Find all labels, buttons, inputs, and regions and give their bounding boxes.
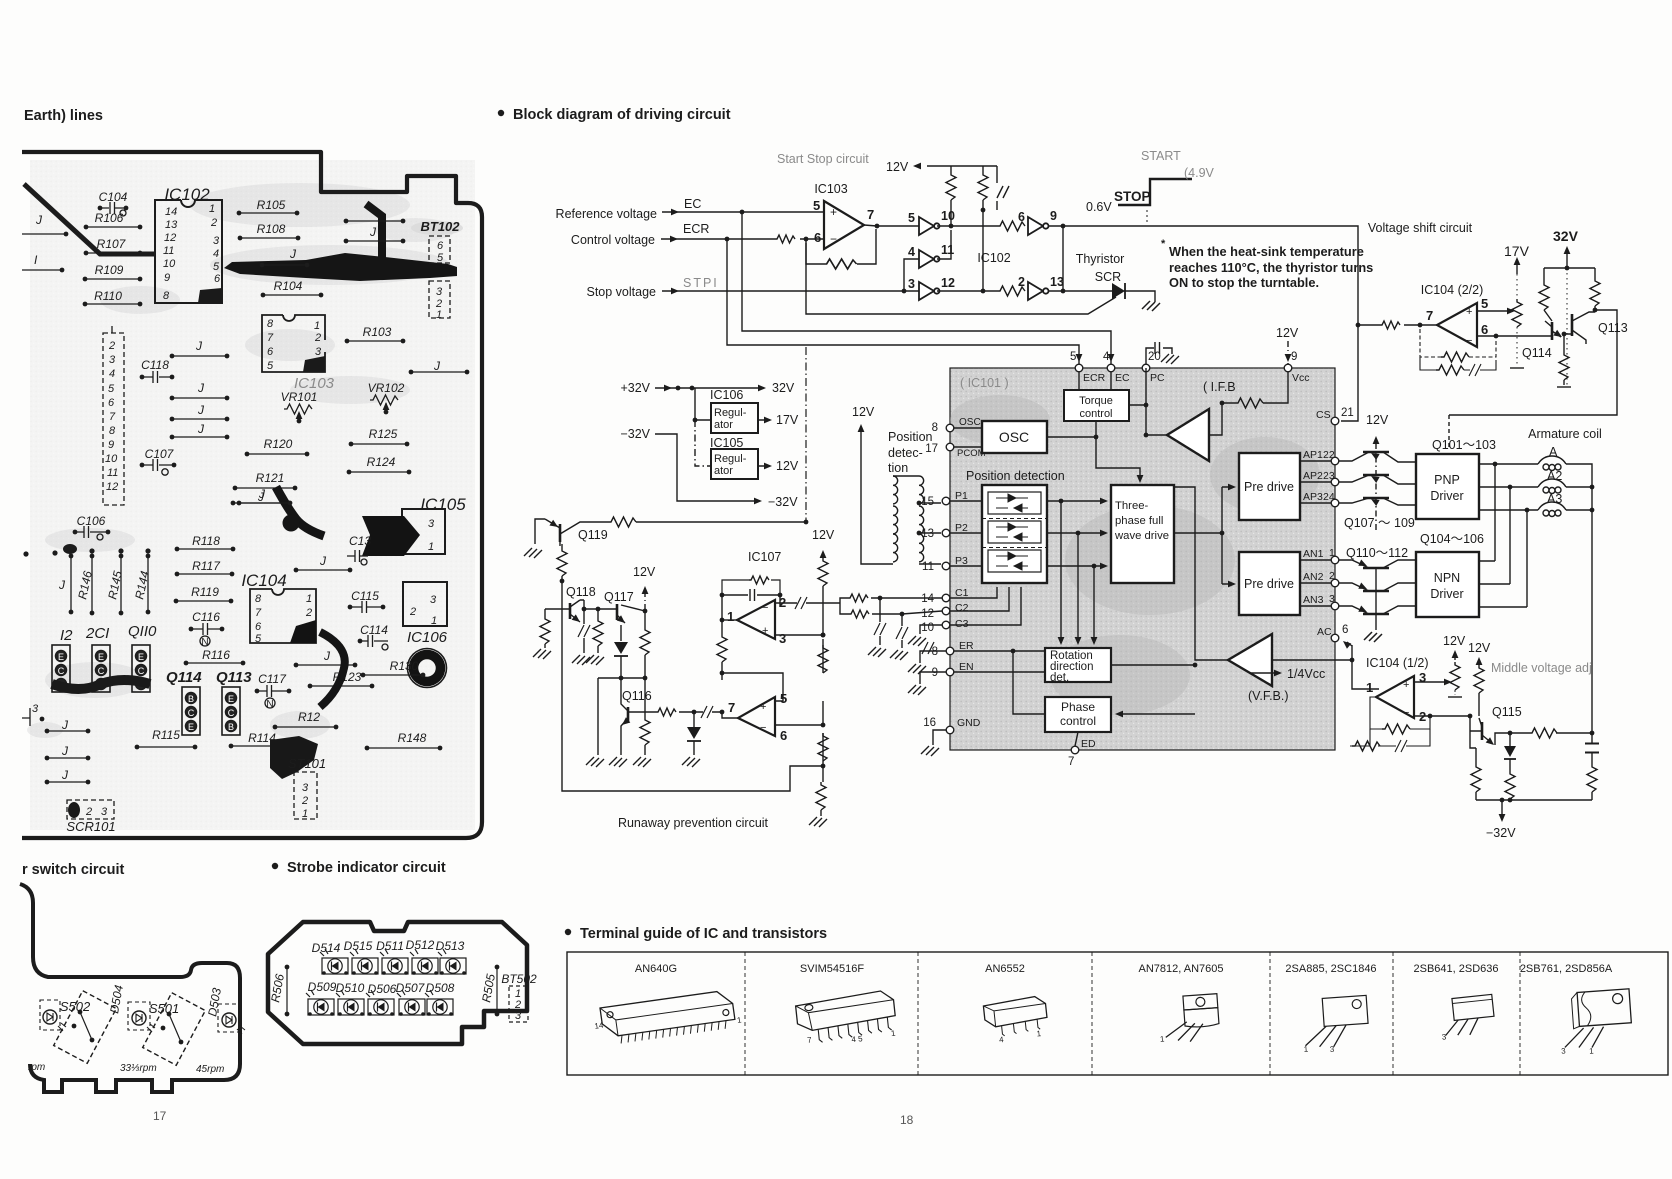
svg-text:J: J — [258, 487, 266, 501]
IFB buffer amp — [1167, 409, 1209, 461]
svg-text:3: 3 — [1329, 593, 1335, 605]
LED D510 — [336, 981, 365, 1016]
svg-text:C118: C118 — [141, 358, 169, 372]
board outline — [22, 152, 482, 838]
svg-text:R121: R121 — [256, 471, 285, 485]
svg-text:3: 3 — [109, 354, 116, 366]
svg-text:18: 18 — [900, 1113, 914, 1127]
capacitor C13x — [347, 534, 371, 565]
svg-text:D512: D512 — [406, 938, 435, 952]
jumper J bl2 — [45, 744, 91, 760]
op-amp IC104-2 — [1426, 296, 1488, 347]
svg-text:IC104 (2/2): IC104 (2/2) — [1421, 283, 1484, 297]
svg-text:Q113: Q113 — [216, 669, 252, 686]
AN pins — [1300, 547, 1339, 610]
input Control voltage ECR — [571, 222, 824, 247]
solder blob mass — [270, 736, 318, 779]
svg-text:1: 1 — [1366, 680, 1373, 695]
svg-text:R103: R103 — [363, 325, 392, 339]
svg-text:3: 3 — [315, 346, 322, 358]
svg-text:Stop voltage: Stop voltage — [587, 285, 657, 299]
wire out10 — [937, 225, 997, 227]
coil common rail — [1591, 487, 1593, 733]
svg-text:D507: D507 — [396, 981, 426, 995]
svg-text:SCR: SCR — [1095, 270, 1121, 284]
svg-text:+: + — [1466, 306, 1472, 318]
note text — [1161, 238, 1373, 290]
svg-text:12V: 12V — [852, 405, 875, 419]
svg-text:D513: D513 — [436, 939, 465, 953]
pin 7 ED — [1068, 738, 1096, 768]
svg-text:AN2: AN2 — [1303, 571, 1324, 583]
LED D515 — [344, 939, 378, 975]
svg-text:GND: GND — [957, 717, 981, 729]
LED D506 — [366, 982, 397, 1016]
rail node dots — [821, 723, 826, 728]
transistor Q111 — [1339, 583, 1416, 593]
node wire y678 — [598, 678, 645, 755]
svg-text:2: 2 — [210, 217, 217, 229]
svg-text:SVIM54516F: SVIM54516F — [800, 963, 864, 975]
svg-text:AN1: AN1 — [1303, 548, 1324, 560]
svg-text:Driver: Driver — [1430, 489, 1463, 503]
op-amp IC107b — [728, 691, 787, 743]
svg-text:Vcc: Vcc — [1292, 372, 1310, 384]
svg-text:Torque: Torque — [1079, 395, 1113, 407]
resistor CS to opamp — [1356, 321, 1437, 329]
transistor Q110 — [1339, 560, 1416, 570]
svg-text:R106: R106 — [95, 211, 124, 225]
12V rail wires — [951, 166, 997, 291]
Q119 collector resistor to -32V — [608, 517, 808, 527]
svg-text:E: E — [138, 652, 144, 662]
pin3 wire to pot — [1414, 681, 1449, 683]
svg-text:C: C — [58, 666, 65, 676]
svg-text:J: J — [61, 768, 69, 782]
resistor R146 vertical — [75, 554, 95, 616]
resistor below Q114 — [1557, 352, 1571, 387]
svg-text:3: 3 — [101, 806, 108, 818]
svg-text:3: 3 — [908, 277, 915, 291]
jumper J bl3 — [45, 768, 91, 784]
connector col 2-12 — [103, 326, 124, 505]
resistor mid branch gnd — [633, 678, 651, 767]
IC104 body — [250, 589, 316, 645]
svg-text:6: 6 — [255, 621, 262, 633]
svg-text:I2: I2 — [60, 627, 73, 644]
resistor R125 — [349, 427, 410, 446]
svg-text:C3: C3 — [955, 618, 969, 630]
svg-text:rpm: rpm — [28, 1062, 45, 1073]
32V supply — [1553, 228, 1579, 385]
svg-text:1/4Vcc: 1/4Vcc — [1287, 667, 1325, 681]
svg-text:IC104 (1/2): IC104 (1/2) — [1366, 656, 1429, 670]
svg-text:ST101: ST101 — [288, 756, 326, 771]
transistor Q107 — [1339, 450, 1416, 462]
svg-text:1: 1 — [1329, 547, 1335, 559]
svg-text:12V: 12V — [633, 565, 656, 579]
jumper J mid-low — [294, 649, 358, 667]
rail resistor 3 — [818, 733, 828, 761]
rpm labels faint — [28, 1062, 224, 1075]
svg-text:17: 17 — [153, 1109, 167, 1123]
svg-text:12: 12 — [106, 481, 118, 493]
gate wire — [806, 243, 1116, 314]
svg-text:J: J — [35, 213, 43, 227]
long wire to bottom rail — [562, 581, 823, 791]
svg-text:+: + — [762, 625, 768, 637]
svg-text:Earth) lines: Earth) lines — [24, 108, 103, 124]
resistor feedback — [823, 259, 857, 269]
svg-text:EC: EC — [1115, 372, 1130, 384]
svg-text:S502: S502 — [60, 999, 91, 1014]
S501 switch dashed — [143, 993, 206, 1066]
resistor R106 — [84, 211, 143, 229]
package 2SB641 — [1438, 994, 1496, 1041]
svg-text:5: 5 — [255, 633, 262, 645]
svg-text:IC102: IC102 — [164, 185, 210, 204]
capacitor C117 — [255, 672, 292, 710]
pin 15 P1 — [921, 490, 968, 508]
svg-text:3: 3 — [515, 1010, 522, 1022]
svg-text:When the heat-sink temperature: When the heat-sink temperature — [1169, 244, 1364, 259]
GND wire — [933, 730, 946, 745]
transistor Q108 — [1339, 473, 1416, 484]
svg-text:E: E — [58, 652, 64, 662]
svg-text:EC: EC — [684, 197, 701, 211]
rail ground — [809, 817, 827, 827]
svg-text:J: J — [323, 649, 331, 663]
trace T near top — [366, 204, 382, 258]
wires torque pins — [1079, 372, 1146, 405]
svg-text:IC105: IC105 — [710, 436, 743, 450]
resistor R120 — [245, 437, 310, 456]
Q112 footprint — [52, 645, 70, 692]
svg-text:11: 11 — [163, 245, 174, 257]
inverter 4-11 — [908, 243, 954, 268]
svg-text:12V: 12V — [886, 160, 909, 174]
svg-text:(V.F.B.): (V.F.B.) — [1248, 689, 1289, 703]
svg-text:ECR: ECR — [1083, 372, 1106, 384]
svg-text:7: 7 — [267, 332, 274, 344]
resistor to C2 — [849, 610, 942, 618]
svg-text:C107: C107 — [145, 447, 175, 461]
svg-text:C: C — [228, 708, 235, 718]
resistor R108 — [238, 222, 301, 240]
rail resistor 4 — [816, 782, 826, 810]
svg-text:P2: P2 — [955, 522, 968, 534]
Q113 base node — [1563, 334, 1565, 352]
+32V rail — [620, 381, 794, 395]
feedback R2 + cap — [1420, 357, 1496, 376]
svg-text:2: 2 — [305, 607, 312, 619]
package AN6552 — [983, 996, 1049, 1046]
svg-text:−: − — [1466, 335, 1472, 347]
svg-text:( I.F.B: ( I.F.B — [1203, 380, 1236, 394]
resistor below diode — [1505, 771, 1515, 800]
package 2SA885 — [1300, 995, 1370, 1055]
connector SCR101 — [66, 800, 115, 834]
svg-text:13: 13 — [165, 219, 178, 231]
pin 14 C1 — [921, 587, 968, 605]
ECR dropper wire — [727, 239, 1079, 364]
svg-text:14: 14 — [165, 206, 177, 218]
svg-text:1: 1 — [727, 609, 734, 624]
IC103 body — [262, 315, 325, 372]
svg-text:R118: R118 — [192, 534, 220, 548]
svg-text:6: 6 — [814, 230, 821, 245]
C elbow wires — [950, 587, 1021, 625]
svg-text:J: J — [195, 339, 203, 353]
jumper J mid — [260, 247, 310, 267]
strobe board outline — [268, 922, 527, 1044]
svg-text:R107: R107 — [97, 237, 127, 251]
svg-text:2: 2 — [314, 332, 321, 344]
arrow into pin5 — [1076, 354, 1083, 362]
three phase to predrive — [1174, 487, 1232, 584]
svg-text:Q116: Q116 — [622, 689, 652, 703]
NPN driver box — [1416, 552, 1479, 617]
OSC box — [982, 421, 1047, 453]
svg-text:7: 7 — [867, 207, 874, 222]
svg-text:3: 3 — [213, 235, 220, 247]
svg-text:Position: Position — [888, 430, 933, 444]
svg-text:N: N — [201, 637, 208, 648]
pin 11 P3 — [922, 555, 968, 573]
pin 13 P2 — [921, 522, 968, 540]
svg-text:Q101〜103: Q101〜103 — [1432, 438, 1496, 452]
svg-text:OSC: OSC — [999, 429, 1029, 445]
resistor emitter — [1529, 728, 1557, 738]
Q113 collector to rail right — [1449, 310, 1617, 415]
IC105 regulator — [695, 420, 799, 479]
resistor R105 — [237, 198, 300, 215]
svg-text:Armature coil: Armature coil — [1528, 427, 1602, 441]
svg-text:3: 3 — [32, 703, 39, 715]
svg-text:EN: EN — [959, 661, 974, 673]
svg-text:14: 14 — [594, 1021, 605, 1031]
three phase box — [1111, 485, 1174, 583]
jumper J vertical — [58, 554, 73, 615]
svg-text:AP2: AP2 — [1303, 470, 1323, 482]
-32V input — [620, 347, 806, 521]
wires inv4 — [904, 230, 951, 291]
svg-text:ator: ator — [714, 419, 733, 431]
svg-text:6: 6 — [437, 240, 444, 252]
inverter 6-9 — [1018, 209, 1057, 235]
svg-text:AC: AC — [1317, 626, 1332, 638]
svg-text:Q107 〜 109: Q107 〜 109 — [1344, 516, 1415, 530]
svg-text:phase full: phase full — [1115, 515, 1163, 527]
phase control box — [1045, 697, 1111, 732]
svg-text:D514: D514 — [312, 941, 341, 955]
svg-text:2SB641, 2SD636: 2SB641, 2SD636 — [1413, 963, 1498, 975]
svg-text:wave drive: wave drive — [1114, 530, 1169, 542]
svg-text:Driver: Driver — [1430, 587, 1463, 601]
svg-text:5: 5 — [213, 261, 220, 273]
svg-text:SCR101: SCR101 — [66, 819, 115, 834]
svg-text:7: 7 — [1068, 756, 1074, 768]
resistor left leg — [1470, 716, 1481, 800]
resistor right (Q113 collector) — [1594, 268, 1596, 310]
Q118 emitter resistor gnd — [533, 609, 562, 659]
diode node — [682, 710, 701, 767]
svg-text:12: 12 — [941, 276, 955, 290]
resistor 12V branch — [640, 611, 650, 678]
svg-text:4: 4 — [908, 245, 915, 259]
svg-text:IC104: IC104 — [241, 571, 286, 590]
jumper J — [22, 213, 68, 236]
Q114 — [1545, 321, 1564, 340]
svg-text:Position detection: Position detection — [966, 469, 1065, 483]
svg-text:IC102: IC102 — [977, 251, 1010, 265]
IC105 body — [362, 509, 445, 556]
OSC wires — [954, 428, 1096, 447]
LED D514 — [312, 941, 348, 975]
cap branch gnd — [572, 609, 590, 665]
S502 switch dashed — [54, 991, 117, 1064]
package SVIM54516F — [795, 990, 898, 1050]
resistor R145 vertical — [105, 554, 125, 616]
resistor R109 — [83, 263, 143, 281]
Q111 footprint — [92, 645, 110, 692]
resistor node1 to node7 — [717, 620, 727, 675]
ground long left — [586, 757, 604, 767]
svg-text:9: 9 — [108, 439, 114, 451]
resistor R144 vertical — [132, 554, 152, 615]
jumper I — [22, 253, 64, 272]
svg-text:R148: R148 — [398, 731, 427, 745]
svg-text:7: 7 — [109, 411, 116, 423]
resistor into inv6 — [997, 221, 1025, 231]
svg-text:5: 5 — [108, 383, 115, 395]
svg-text:+32V: +32V — [620, 381, 650, 395]
svg-text:Three-: Three- — [1115, 500, 1149, 512]
title — [272, 860, 446, 876]
svg-text:2SB761, 2SD856A: 2SB761, 2SD856A — [1520, 963, 1613, 975]
svg-text:R124: R124 — [367, 455, 396, 469]
svg-text:5: 5 — [437, 252, 444, 264]
diode below Q117 — [614, 625, 628, 678]
svg-text:QII0: QII0 — [128, 623, 157, 640]
svg-text:Regul-: Regul- — [714, 407, 747, 419]
svg-text:Thyristor: Thyristor — [1076, 252, 1125, 266]
svg-text:B: B — [228, 722, 234, 732]
resistor R124 — [347, 455, 412, 474]
svg-text:5: 5 — [908, 211, 915, 225]
jumper J r4 — [170, 422, 230, 439]
17V pot — [1504, 243, 1530, 368]
svg-text:Q118: Q118 — [566, 585, 596, 599]
svg-text:0.6V: 0.6V — [1086, 200, 1112, 214]
svg-text:C2: C2 — [955, 602, 969, 614]
table dividers — [745, 952, 1520, 1075]
svg-text:2: 2 — [409, 606, 416, 618]
package AN7812 — [1157, 994, 1220, 1044]
sensor coil right — [919, 476, 924, 562]
inverter 2-13 — [1018, 275, 1064, 300]
svg-text:14: 14 — [921, 593, 934, 605]
AC wire to opamp — [1347, 642, 1379, 689]
svg-text:C116: C116 — [192, 610, 220, 624]
resistor R115 — [135, 728, 198, 749]
1/4Vcc arrow — [1250, 667, 1325, 681]
svg-text:12V: 12V — [1276, 326, 1299, 340]
svg-text:STPI: STPI — [683, 276, 719, 290]
12V base rail PNP — [1366, 413, 1389, 533]
svg-text:6: 6 — [214, 273, 221, 285]
pin 16 GND — [923, 717, 981, 734]
resistor R122 — [273, 710, 339, 729]
svg-text:C114: C114 — [360, 623, 388, 637]
connector ST101 — [288, 756, 326, 820]
svg-text:11: 11 — [922, 561, 934, 573]
pin2 out cap to rail — [775, 597, 823, 609]
Q115 — [1470, 718, 1496, 748]
svg-text:11: 11 — [107, 467, 118, 479]
rail resistor 2 — [818, 645, 828, 673]
rail to PNP driver — [1448, 415, 1450, 450]
svg-text:C1: C1 — [955, 587, 969, 599]
input Reference voltage EC — [556, 197, 824, 221]
svg-text:6: 6 — [1342, 624, 1348, 636]
waveform START STOP — [1086, 149, 1215, 224]
svg-text:IC106: IC106 — [407, 629, 448, 646]
IC102 body — [155, 200, 222, 304]
svg-text:15: 15 — [921, 496, 934, 508]
svg-text:reaches 110°C, the thyristor t: reaches 110°C, the thyristor turns — [1169, 260, 1373, 275]
svg-text:Q113: Q113 — [1598, 321, 1628, 335]
svg-text:5: 5 — [1481, 296, 1488, 311]
table frame — [567, 952, 1668, 1075]
12V coil feed — [852, 405, 893, 564]
transistor Q112 — [1339, 606, 1416, 616]
svg-text:8: 8 — [255, 593, 262, 605]
EN gnd — [920, 672, 946, 684]
svg-text:Terminal guide of IC and trans: Terminal guide of IC and transistors — [580, 926, 827, 942]
svg-text:45rpm: 45rpm — [196, 1064, 224, 1075]
pin2 wire — [1414, 715, 1470, 717]
pin 9 EN — [932, 661, 974, 679]
svg-text:(4.9V: (4.9V — [1184, 166, 1215, 180]
svg-text:+: + — [830, 205, 837, 219]
svg-text:J: J — [289, 247, 297, 261]
svg-text:6: 6 — [267, 346, 274, 358]
svg-text:2: 2 — [1018, 275, 1025, 289]
resistor R110 — [83, 289, 143, 306]
svg-text:4: 4 — [213, 248, 219, 260]
svg-text:IC107: IC107 — [748, 550, 781, 564]
svg-text:8: 8 — [932, 422, 938, 434]
svg-text:J: J — [197, 403, 205, 417]
op-amp IC103 — [813, 198, 874, 249]
svg-text:C: C — [98, 666, 105, 676]
svg-text:Q114: Q114 — [166, 669, 202, 686]
wire J pair lower — [344, 239, 406, 244]
svg-text:3: 3 — [779, 631, 786, 646]
svg-text:1: 1 — [314, 320, 320, 332]
trimmer cap — [997, 186, 1009, 198]
capacitor C115 — [348, 589, 386, 613]
resistor to C1 — [848, 594, 942, 602]
resistor IFB — [1235, 398, 1263, 408]
svg-text:Q115: Q115 — [1492, 705, 1522, 719]
resistor R107 — [84, 237, 143, 255]
svg-text:det.: det. — [1050, 672, 1069, 684]
svg-text:17V: 17V — [776, 413, 799, 427]
svg-text:Voltage shift circuit: Voltage shift circuit — [1368, 221, 1473, 235]
ER EN to blocks — [954, 651, 1045, 714]
